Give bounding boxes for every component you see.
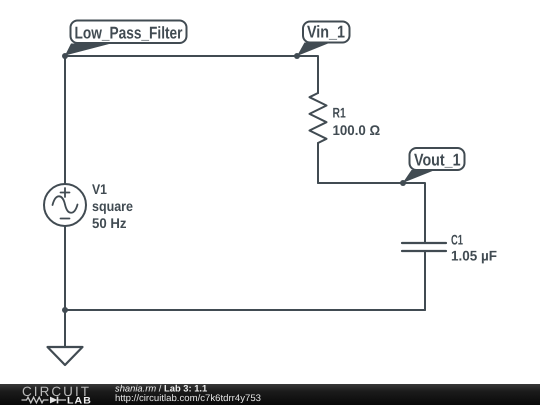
- flag Vin_1 box: [303, 22, 350, 43]
- wire bottom node down to ground: [64, 310, 66, 347]
- ground symbol: [48, 347, 83, 365]
- svg-text:square: square: [92, 198, 133, 214]
- V1 sine wave: [53, 196, 78, 212]
- logo resistor squiggle: [22, 397, 49, 403]
- wire C1 bottom lead to bottom net: [424, 251, 426, 310]
- V1 plus sign: [61, 188, 70, 197]
- svg-text:Vin_1: Vin_1: [307, 23, 345, 42]
- svg-text:1.05 µF: 1.05 µF: [451, 248, 497, 264]
- wire V1 minus terminal down to bottom net: [64, 226, 66, 310]
- flag Vin_1 pointer: [297, 43, 331, 57]
- svg-text:100.0 Ω: 100.0 Ω: [333, 122, 381, 138]
- flag Vout_1 box: [410, 148, 465, 170]
- svg-text:50 Hz: 50 Hz: [92, 215, 127, 231]
- resistor R1 zigzag: [310, 93, 327, 143]
- svg-text:http://circuitlab.com/c7k6tdrr: http://circuitlab.com/c7k6tdrr4y753: [115, 393, 261, 404]
- logo diode: [50, 397, 58, 404]
- voltage source V1 circle: [44, 184, 86, 226]
- node dot A (Low_Pass_Filter anchor): [62, 53, 68, 59]
- svg-text:LAB: LAB: [67, 396, 92, 405]
- flag Vout_1 pointer: [403, 170, 435, 183]
- wire top horizontal net Low_Pass_Filter/Vin_1: [65, 56, 318, 93]
- wire left vertical from node A to V1 plus terminal: [64, 56, 66, 184]
- node dot Vout_1 anchor: [400, 180, 406, 186]
- node dot bottom-left junction: [62, 307, 68, 313]
- wire middle horizontal net Vout_1: [318, 183, 425, 243]
- svg-text:R1: R1: [333, 105, 346, 121]
- wire R1 bottom lead: [317, 143, 319, 183]
- svg-text:Vout_1: Vout_1: [414, 151, 461, 170]
- svg-text:V1: V1: [92, 181, 107, 197]
- flag Low_Pass_Filter pointer: [65, 44, 111, 56]
- svg-text:Low_Pass_Filter: Low_Pass_Filter: [75, 23, 183, 42]
- svg-text:C1: C1: [451, 231, 463, 247]
- node dot Vin_1 anchor: [294, 53, 300, 59]
- V1 minus sign: [61, 218, 70, 220]
- capacitor C1 top plate: [402, 242, 446, 244]
- wire bottom horizontal net: [65, 309, 425, 311]
- flag Low_Pass_Filter box: [71, 21, 187, 44]
- capacitor C1 bottom plate: [402, 250, 446, 252]
